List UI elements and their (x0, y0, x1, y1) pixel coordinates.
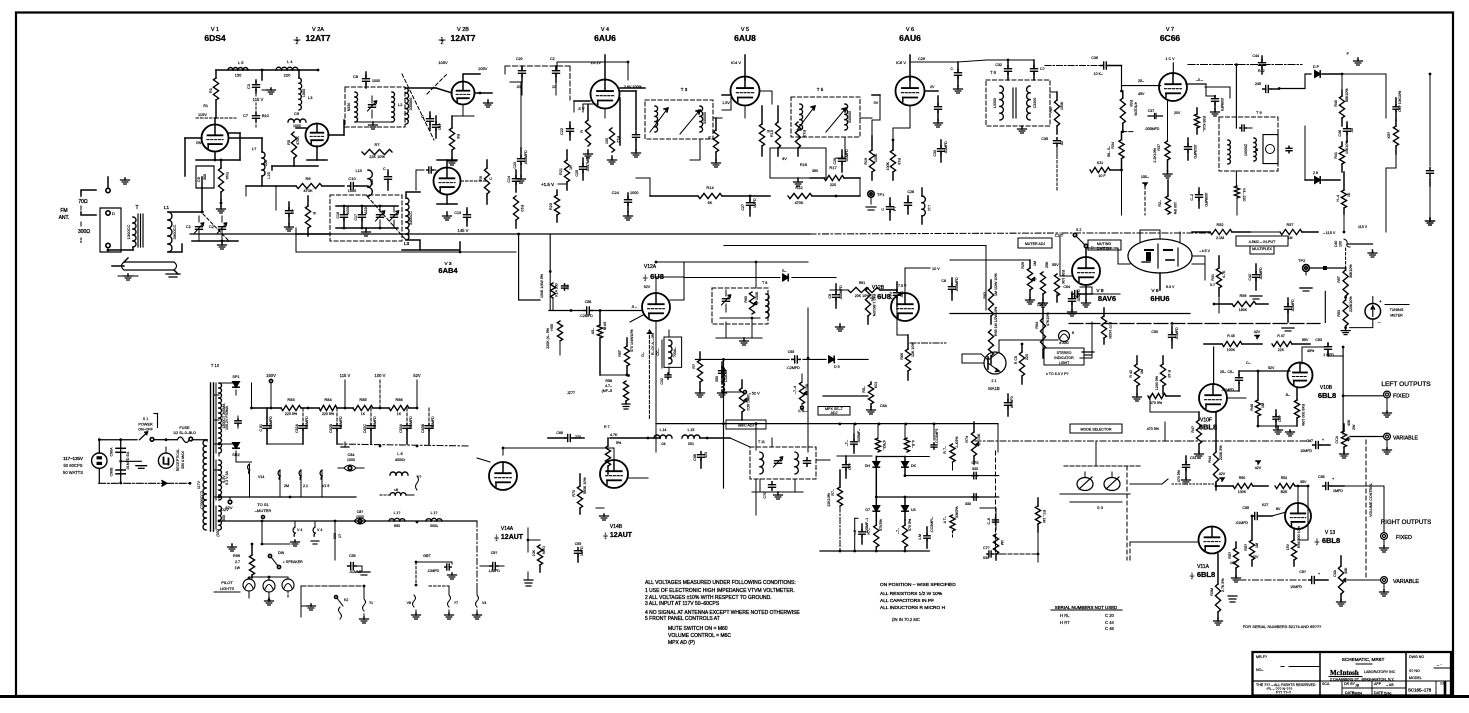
svg-text:S 2: S 2 (1076, 228, 1081, 232)
svg-text:6K: 6K (708, 201, 713, 205)
C31 cap (950, 62, 962, 93)
svg-text:10K: 10K (532, 549, 536, 556)
resistor R6 inject (276, 176, 344, 193)
svg-text:?7: ?7 (454, 601, 458, 605)
svg-text:R70: R70 (572, 490, 576, 497)
pilot lamp 3 (282, 577, 294, 597)
svg-text:R 7: R 7 (604, 425, 610, 429)
filter caps below (763, 479, 776, 499)
cap C22 V4 (560, 122, 574, 140)
cap C25 .0047 (575, 155, 590, 180)
gnd S2 (301, 604, 316, 610)
V12A cathode wire (630, 315, 671, 385)
mode switch arms (1060, 466, 1140, 502)
wire V3 plate (437, 160, 457, 168)
svg-text:30MFD: 30MFD (305, 416, 309, 428)
muting res extra (1101, 308, 1112, 344)
left var gnd (1383, 441, 1392, 454)
svg-text:C7?: C7? (848, 463, 852, 470)
right fixed terminal (1381, 533, 1412, 541)
svg-text:105V: 105V (478, 66, 488, 71)
GBT label (415, 554, 438, 563)
cap C38 005MF3 (1212, 96, 1225, 111)
svg-text:R5T: R5T (1337, 275, 1341, 283)
resistor R15 V5 (770, 106, 781, 156)
svg-text:2.7K 5%: 2.7K 5% (1221, 578, 1225, 592)
svg-text:T 5: T 5 (817, 87, 824, 92)
svg-text:POWER: POWER (138, 423, 153, 427)
62V terminal (225, 497, 232, 510)
svg-text:R53: R53 (1337, 310, 1341, 317)
svg-text:4.5MC – IN-PUT: 4.5MC – IN-PUT (1249, 240, 1276, 244)
T5 windings (800, 104, 852, 130)
volume control label (1369, 483, 1373, 517)
resistor R34 56K10% (1107, 132, 1124, 170)
wire above V10A (1214, 347, 1226, 384)
svg-text:12AUT: 12AUT (501, 534, 524, 541)
triode V2A 12AT7 (306, 124, 329, 147)
resistor R18 100K (886, 140, 901, 180)
svg-text:7.5 V: 7.5 V (898, 284, 907, 288)
svg-text:2: 2 (644, 278, 646, 282)
grid labels (1138, 79, 1145, 96)
cap C87 coupling (556, 431, 584, 442)
svg-text:L3300: L3300 (993, 98, 997, 108)
tube label 6BL8 (1315, 536, 1340, 546)
svg-text:6AU6: 6AU6 (899, 33, 921, 43)
svg-text:GBT: GBT (423, 554, 431, 558)
T5 right exit (860, 117, 872, 119)
svg-text:1000: 1000 (302, 89, 306, 97)
svg-text:1 C V: 1 C V (1166, 57, 1176, 61)
svg-text:20V: 20V (1174, 111, 1181, 115)
svg-text:FUSE: FUSE (179, 426, 190, 430)
svg-text:1?: 1? (338, 534, 342, 538)
feedthru C84 (338, 453, 364, 471)
svg-text:10K10%: 10K10% (1345, 140, 1349, 154)
svg-text:R63: R63 (983, 292, 987, 299)
svg-text:100K: 100K (1060, 101, 1064, 110)
svg-text:70Ω: 70Ω (78, 199, 88, 205)
svg-text:56– 0–: 56– 0– (1107, 146, 1111, 157)
triode V11A 6BL8 (1199, 527, 1226, 554)
V6 screen bypass (934, 96, 943, 127)
wire V6 plate to top (896, 55, 910, 80)
svg-text:1M: 1M (1255, 543, 1259, 548)
svg-text:♦ TO 6.3 V P?: ♦ TO 6.3 V P? (1046, 372, 1068, 376)
V4 grid wire (574, 101, 590, 111)
cap C35 02 (1041, 137, 1064, 156)
gnd lamp (1082, 352, 1094, 355)
svg-text:R20: R20 (549, 203, 553, 210)
cap C85b 1MFD (575, 542, 585, 562)
V12A grid label (644, 285, 651, 289)
test point TP1 (866, 191, 885, 210)
wire TP2 right (1309, 266, 1346, 270)
svg-text:68K10%: 68K10% (1345, 88, 1349, 102)
gnd V11A (1214, 618, 1223, 625)
svg-text:145 V: 145 V (458, 228, 469, 233)
svg-text:V14: V14 (258, 475, 264, 479)
sep adj box (818, 407, 850, 416)
svg-text:C?300CC?: C?300CC? (200, 491, 204, 509)
muting switch box (1088, 240, 1121, 251)
T9 tertiary box (1263, 135, 1278, 164)
resistor R54 100K (540, 273, 570, 310)
line cord label (63, 456, 83, 475)
svg-text:C5?: C5? (1299, 570, 1306, 574)
cap C65 out (786, 350, 800, 370)
svg-text:220: 220 (264, 160, 268, 166)
svg-text:47K5–: 47K5– (882, 440, 886, 450)
IF transformer T3 label (681, 87, 688, 92)
capacitor C3 bypass (246, 70, 262, 93)
IF transformer T1 box (345, 87, 405, 127)
svg-text:5/4c: 5/4c (1384, 691, 1392, 696)
svg-text:2W: 2W (1352, 424, 1356, 430)
resistor R72b 22K (827, 470, 843, 551)
gnd R7A (1340, 452, 1349, 458)
svg-text:R7: R7 (374, 142, 380, 147)
svg-text:1MFD: 1MFD (753, 198, 757, 208)
svg-text:C46: C46 (1338, 130, 1342, 137)
resistor R21 1K left (559, 150, 573, 190)
52 V arrow terminal (724, 391, 761, 396)
svg-text:V4– 220: V4– 220 (1242, 188, 1246, 201)
stereo lamp (1059, 331, 1075, 342)
rectifier SR2 (218, 443, 240, 457)
svg-text:C?0: C?0 (763, 492, 767, 499)
svg-text:S 1: S 1 (143, 417, 148, 421)
muting caps (1068, 292, 1077, 316)
diode D7 (865, 497, 879, 521)
svg-text:R17: R17 (829, 165, 837, 170)
svg-text:T 10: T 10 (211, 363, 220, 368)
triode V12B 6U8 (891, 293, 919, 321)
cap C63 topright (941, 277, 959, 300)
feedthru C86 (354, 510, 366, 524)
matrix bus right (948, 498, 996, 530)
svg-text:C9: C9 (294, 111, 300, 116)
wire meter left vert (1324, 291, 1326, 322)
T10 HV secondary (219, 383, 226, 453)
svg-text:K01: K01 (874, 382, 878, 388)
triode V14B 12AU7 (600, 460, 628, 488)
sep adj feed (1035, 287, 1043, 358)
T9 primary (1228, 128, 1230, 164)
svg-text:4–5–: 4–5– (911, 440, 915, 448)
V10B plate wire (1302, 343, 1328, 364)
triode V12A 6U8 (642, 293, 670, 321)
svg-text:2.1M: 2.1M (1216, 236, 1224, 240)
riser links matrix (854, 424, 934, 440)
svg-text:6BL8: 6BL8 (1199, 423, 1217, 432)
svg-text:D2V: D2V (221, 508, 229, 512)
svg-text:A7MF0: A7MF0 (1010, 396, 1014, 408)
svg-text:R29: R29 (1021, 262, 1025, 269)
gnd R7B (1337, 600, 1346, 606)
115V label (253, 93, 264, 102)
svg-text:150V: 150V (266, 373, 276, 378)
V14A grid components (528, 540, 546, 572)
svg-text:R?? 1K0N: R?? 1K0N (1108, 322, 1112, 339)
det out res (1387, 120, 1399, 154)
svg-text:N330: N330 (347, 103, 351, 112)
svg-text:T 11: T 11 (758, 440, 765, 444)
LEFT OUTPUTS label (1381, 381, 1431, 388)
svg-text:C: C (421, 115, 424, 119)
svg-text:R37: R37 (1157, 144, 1161, 151)
resistor S2 right (360, 585, 374, 623)
svg-text:C44: C44 (1252, 54, 1259, 58)
svg-text:CCA: CCA (1335, 435, 1339, 443)
svg-text:F?? ??–?: F?? ??–? (1276, 691, 1291, 695)
resistor R85 (353, 397, 389, 416)
svg-text:P?: P? (893, 207, 897, 211)
svg-text:15V: 15V (1286, 543, 1290, 550)
svg-text:2: 2 (496, 538, 498, 542)
matrix top feed (830, 456, 872, 480)
svg-text:C: C (881, 208, 885, 211)
cap C27 1MFD (741, 195, 757, 216)
svg-text:C82C: C82C (363, 424, 367, 434)
mpx mid vertical (656, 330, 728, 488)
svg-text:C65: C65 (788, 350, 795, 354)
svg-text:3300CC: 3300CC (409, 211, 413, 225)
ground V4 area2 (608, 156, 617, 164)
svg-text:=8: =8 (394, 488, 398, 492)
svg-text:PILOT: PILOT (221, 580, 233, 585)
T3 slug arrows (650, 108, 700, 134)
svg-text:300: 300 (203, 174, 207, 180)
svg-text:R4A: R4A (225, 172, 229, 180)
V1 grid dash wire (198, 112, 236, 118)
svg-text:390: 390 (812, 169, 818, 173)
svg-text:C28: C28 (907, 190, 914, 194)
svg-text:33K5%: 33K5% (955, 506, 959, 518)
svg-text:R19: R19 (864, 158, 868, 165)
resistor R9 V3 (479, 160, 493, 204)
svg-text:R58: R58 (605, 379, 612, 383)
wire V2A grid coupling (296, 127, 306, 129)
matrix input cap (843, 456, 853, 478)
choke L6 (395, 451, 405, 462)
capacitor C9 coupling (288, 111, 306, 128)
svg-text:C 20: C 20 (1105, 613, 1115, 618)
right lower wire (1426, 186, 1435, 225)
T2 varcap 1 (376, 206, 385, 228)
right border wire (1426, 186, 1435, 225)
V5 grid leak R (708, 118, 721, 167)
tube label V11A (1197, 564, 1210, 570)
matrix low cluster (993, 534, 1004, 560)
heater bus 2 (219, 520, 477, 524)
wire C36 to V7 grid (1120, 66, 1161, 93)
svg-text:R7–: R7– (831, 489, 835, 496)
svg-text:.0047MFD: .0047MFD (586, 155, 590, 172)
T1 secondary coil L2 (392, 92, 403, 122)
svg-text:C55: C55 (1242, 506, 1249, 510)
T10 taps (214, 395, 220, 522)
resistor R22 470K (788, 185, 837, 205)
tube label 8AV6 (1098, 294, 1116, 303)
tuning meter gnd (1350, 319, 1373, 328)
cap C46 05 (1338, 122, 1354, 142)
triode V1 6DS4 (202, 125, 229, 152)
left variable terminal (1384, 433, 1419, 441)
antenna terminal A1 (106, 177, 110, 193)
tuning dashed diagonal lower (367, 196, 406, 240)
svg-text:100: 100 (605, 138, 609, 144)
wire plate V1 up (214, 118, 216, 124)
svg-text:2 1: 2 1 (991, 379, 996, 383)
tube label V 9 (1151, 288, 1159, 294)
svg-text:T 6: T 6 (990, 70, 997, 75)
cut label (1055, 228, 1082, 238)
dash bus detector out (1062, 232, 1280, 233)
V11 grid cluster (1228, 542, 1241, 582)
resistor R7 22K (362, 142, 392, 159)
svg-text:1.5V: 1.5V (722, 101, 730, 105)
svg-text:2: 2 (1316, 542, 1318, 546)
svg-text:→4.5 V: →4.5 V (1198, 249, 1211, 253)
svg-text:310: 310 (704, 452, 708, 458)
resistor R56 1M (591, 311, 607, 376)
svg-text:C5?: C5? (491, 551, 498, 555)
svg-text:10: 10 (552, 85, 556, 89)
cap C52 01MFD (1221, 370, 1242, 392)
cap cluster A (853, 518, 869, 544)
V10B grid wire (1239, 366, 1290, 372)
right variable terminal (1381, 577, 1420, 585)
receptacle wires (166, 447, 191, 485)
dash-dot bus into C36 (1045, 65, 1100, 67)
V4 plate decouple wire (583, 104, 605, 118)
svg-text:LIGHTS: LIGHTS (220, 586, 235, 591)
wire matrix right (876, 456, 929, 458)
mpx cap mid (719, 362, 729, 384)
cap C8 top (353, 72, 380, 88)
resistor R?? 1M lower (1035, 498, 1046, 532)
svg-text:.002MFD: .002MFD (1193, 144, 1197, 159)
svg-text:3 ALL INPUT AT 117V 50–60CPS: 3 ALL INPUT AT 117V 50–60CPS (645, 601, 720, 607)
svg-text:R40: R40 (1334, 100, 1338, 107)
svg-text:C23: C23 (513, 162, 517, 169)
svg-text:M A6: M A6 (603, 322, 607, 330)
power switch (137, 432, 167, 441)
wire cathode join (196, 133, 240, 161)
svg-text:.003MFD: .003MFD (839, 285, 843, 300)
svg-text:115V: 115V (198, 112, 207, 117)
svg-text:V12A: V12A (644, 264, 657, 270)
right var gnd (1380, 584, 1389, 596)
svg-text:S–: S– (782, 269, 786, 273)
svg-text:2M: 2M (284, 484, 289, 488)
ratio det T9 box (1219, 117, 1278, 171)
svg-text:5 FRONT PANEL CONTROLS AT: 5 FRONT PANEL CONTROLS AT (645, 616, 720, 622)
cap filter 1 (693, 437, 709, 468)
svg-text:C?: C? (291, 209, 295, 214)
cap C29 V6 out (881, 198, 897, 220)
McIntosh logo (1329, 669, 1396, 682)
svg-text:36K10%: 36K10% (1349, 264, 1353, 278)
svg-text:1M: 1M (1000, 540, 1004, 545)
svg-text:2V: 2V (930, 85, 935, 89)
svg-text:330: 330 (222, 515, 226, 521)
svg-text:C50: C50 (1151, 330, 1158, 334)
svg-text:MPX AD (: MPX AD (P) (668, 640, 695, 646)
ground R53 (1341, 328, 1350, 335)
35V label (1300, 480, 1307, 484)
svg-text:3V: 3V (782, 156, 787, 161)
svg-text:C20: C20 (516, 57, 523, 61)
svg-text:1M: 1M (1140, 369, 1144, 374)
title block dividers (1320, 652, 1406, 696)
svg-text:V14B: V14B (610, 524, 623, 530)
resistor R73 47K5 (896, 518, 912, 552)
svg-text:22K10%: 22K10% (827, 492, 831, 506)
svg-text:R5–: R5– (862, 386, 866, 393)
ground V3 cath (443, 212, 452, 220)
ground near antenna (121, 178, 130, 184)
svg-text:4TK5%: 4TK5% (879, 518, 883, 531)
T9 right cap (1286, 144, 1292, 155)
svg-text:220K 5%: 220K 5% (1219, 445, 1223, 460)
V1 cathode network wire (214, 152, 217, 161)
resistor R77 33K5 (943, 436, 959, 470)
T9 bottom exit (1235, 171, 1237, 186)
svg-text:R64: R64 (1035, 322, 1039, 329)
svg-text:C1?: C1? (438, 123, 442, 130)
detector right rail (1385, 74, 1387, 118)
cap C71 005 (845, 429, 861, 453)
mixer inject wire (246, 176, 276, 186)
svg-text:(330: (330 (216, 529, 220, 536)
svg-text:470K: 470K (303, 188, 313, 193)
AC plug (92, 440, 107, 483)
svg-text:1K: 1K (569, 165, 573, 170)
pilot wire (249, 577, 288, 578)
svg-text:330000: 330000 (848, 111, 852, 123)
svg-text:R10: R10 (520, 205, 524, 212)
svg-text:40MFD: 40MFD (339, 416, 343, 428)
tube label 6BL8 (1190, 570, 1215, 580)
pilot lamp 2 (263, 576, 275, 598)
svg-text:→115 V: →115 V (1322, 231, 1336, 235)
svg-text:470K: 470K (296, 136, 300, 145)
svg-text:S? NO: S? NO (1409, 669, 1420, 673)
svg-text:6BL8: 6BL8 (1318, 391, 1336, 400)
pilot note (1046, 372, 1068, 376)
T3 windings (655, 106, 707, 132)
svg-text:2.2K10%: 2.2K10% (1153, 147, 1157, 162)
svg-text:D 5: D 5 (834, 365, 840, 369)
svg-text:1M: 1M (1261, 403, 1265, 408)
wire C20 drop (522, 82, 556, 95)
svg-text:47K10%: 47K10% (1046, 312, 1050, 326)
svg-text:470 5%: 470 5% (1177, 469, 1181, 482)
bus y424 (656, 423, 998, 453)
svg-text:ON–OFF: ON–OFF (138, 428, 153, 432)
tube header V 2B 12AT7 (439, 27, 476, 46)
svg-text:C29: C29 (918, 57, 925, 61)
filter cap C83A (399, 408, 413, 444)
svg-text:CD: CD (566, 284, 570, 290)
svg-text:S 3: S 3 (1097, 505, 1104, 510)
gnd lamps (265, 598, 274, 605)
svg-text:DATE: DATE (1374, 691, 1384, 695)
capacitor C6 cathode (196, 160, 214, 188)
